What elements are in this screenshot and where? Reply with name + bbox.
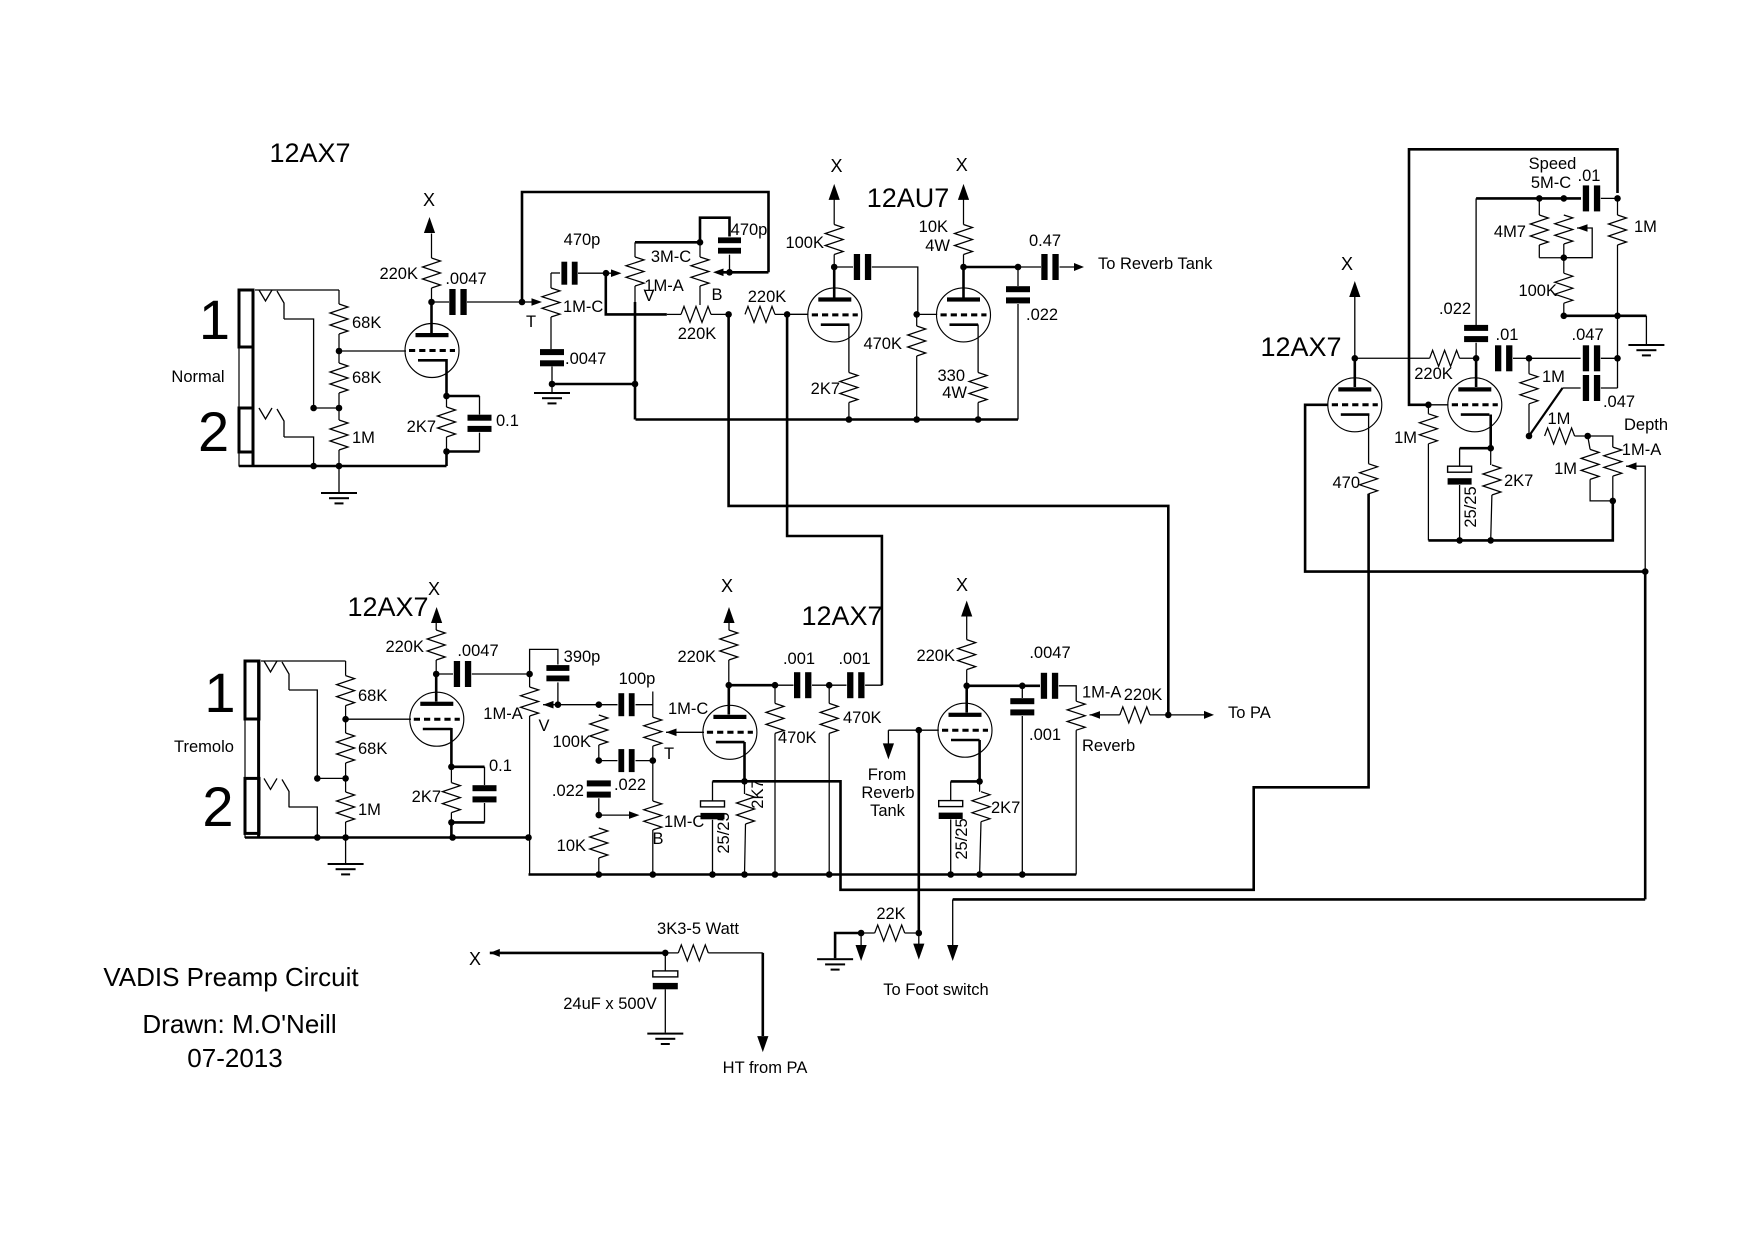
svg-text:0.1: 0.1: [496, 412, 519, 430]
potentiometer 1M-C Treble (T): [542, 273, 560, 349]
capacitor .047 (depth coupling): [1563, 375, 1618, 401]
capacitor .047 (phase 2): [1529, 345, 1618, 371]
node cathode V1a: [443, 393, 450, 400]
svg-text:1M-C: 1M-C: [668, 700, 708, 718]
node tone ground: [549, 381, 556, 388]
svg-text:1M: 1M: [1542, 368, 1565, 386]
ground (normal input): [321, 466, 357, 504]
wire J4 shunt to ground bus: [289, 807, 317, 838]
capacitor 24uF x 500V: [653, 953, 678, 1033]
wire tone ground strap: [552, 381, 638, 388]
node phase node 3: [1614, 355, 1621, 362]
wire grid V3a: [346, 718, 411, 720]
resistor 1M (depth series): [1545, 428, 1588, 444]
label 2K7: [811, 380, 840, 398]
capacitor 470p (bass bypass): [718, 237, 741, 272]
wire wiper row: [558, 704, 599, 706]
capacitor .022 (series): [599, 749, 653, 772]
svg-text:X: X: [956, 575, 968, 595]
label Reverb: [1082, 737, 1135, 755]
resistor 10K 4W (plate load U2b): [955, 225, 973, 268]
label 25/25: [953, 818, 971, 859]
potentiometer 1M-C Bass (tremolo B): [644, 761, 662, 875]
svg-text:To PA: To PA: [1228, 704, 1271, 722]
wire speed top row: [1476, 197, 1581, 200]
jack J1/J2 body (Normal inputs): [239, 290, 253, 466]
node grid V5b: [1425, 402, 1432, 409]
capacitor .0047 (coupling V3a): [436, 661, 529, 687]
resistor 220K (plate load V1a): [423, 234, 441, 303]
wire J1 tip to 68K: [255, 289, 339, 291]
svg-text:1M: 1M: [1634, 218, 1657, 236]
svg-text:T: T: [526, 313, 536, 331]
label .022: [1439, 300, 1471, 318]
label Depth: [1624, 416, 1668, 434]
tube label 12AX7 (V3b/V4): [801, 601, 882, 631]
label 1M-A: [644, 277, 683, 295]
wire plate V5a: [1354, 358, 1357, 387]
resistor 220K (osc plate): [1355, 350, 1476, 366]
label 1M: [1547, 410, 1570, 428]
svg-text:3K3-5 Watt: 3K3-5 Watt: [657, 920, 739, 938]
node 5M-C top: [1561, 195, 1568, 202]
svg-text:.022: .022: [614, 776, 646, 794]
title VADIS Preamp Circuit: [103, 962, 359, 992]
svg-text:.022: .022: [1439, 300, 1471, 318]
svg-text:25/25: 25/25: [953, 818, 971, 859]
wire cathode U2b: [977, 325, 979, 373]
label 10K 4W: [919, 218, 951, 255]
svg-text:07-2013: 07-2013: [187, 1043, 282, 1073]
capacitor .022 (tank shunt): [1006, 267, 1030, 420]
jack J2 tip contact: [259, 408, 284, 437]
svg-text:1M-A: 1M-A: [1622, 441, 1661, 459]
capacitor 0.1 (cathode bypass V1a): [468, 396, 492, 452]
svg-text:3M-C: 3M-C: [651, 248, 691, 266]
jack J4 tip contact: [264, 778, 289, 807]
label 220K: [678, 325, 717, 343]
svg-text:.001: .001: [838, 650, 870, 668]
svg-text:.047: .047: [1572, 326, 1604, 344]
svg-text:To Reverb Tank: To Reverb Tank: [1098, 255, 1213, 273]
svg-text:B: B: [711, 286, 722, 304]
label T: [526, 313, 536, 331]
resistor 2K7 (cathode V3a): [442, 767, 460, 823]
capacitor .001 (reverb shunt): [1010, 686, 1034, 878]
svg-text:X: X: [423, 190, 435, 210]
wire cathode reverb: [978, 740, 981, 781]
svg-text:.022: .022: [552, 782, 584, 800]
resistor 220K (plate load V3b): [720, 630, 738, 685]
svg-text:220K: 220K: [678, 325, 717, 343]
wire grid V5b: [1428, 404, 1448, 406]
capacitor .01 (speed cap): [1583, 185, 1618, 211]
supply arrow X (V3b): [721, 576, 735, 630]
label 1M: [1542, 368, 1565, 386]
jack J1 tip contact: [259, 290, 284, 319]
capacitor .0047 (coupling V1a): [432, 289, 523, 315]
label .001: [838, 650, 870, 668]
svg-text:2K7: 2K7: [749, 779, 767, 808]
node 12AU7 grid A: [784, 311, 791, 318]
resistor 1M (osc top right): [1609, 198, 1627, 315]
resistor 100K (osc): [1555, 258, 1573, 316]
capacitor 0.1 (cathode bypass V3a): [473, 767, 497, 823]
label B: [711, 286, 722, 304]
svg-text:220K: 220K: [385, 638, 424, 656]
resistor 220K (mixer 2): [745, 306, 808, 322]
wire cathode U2a: [848, 325, 850, 373]
potentiometer 1M-C Treble (tremolo T): [644, 692, 662, 761]
node grid V1a: [336, 348, 343, 355]
resistor 2K7 (cathode reverb): [972, 781, 990, 877]
svg-text:10K: 10K: [919, 218, 948, 236]
label .0047: [457, 642, 498, 660]
svg-text:220K: 220K: [379, 265, 418, 283]
wire J3 shunt to node: [289, 690, 317, 778]
label 24uF x 500V: [563, 995, 657, 1013]
label 1M: [1554, 460, 1577, 478]
svg-text:68K: 68K: [352, 314, 381, 332]
node output U2b: [1015, 264, 1022, 271]
label 220K: [677, 648, 716, 666]
wire plate U2b: [962, 267, 965, 298]
label 220K: [748, 288, 787, 306]
wire to 470p bass: [700, 218, 730, 243]
svg-text:100K: 100K: [785, 234, 824, 252]
resistor 4M7: [1530, 198, 1564, 257]
label To PA: [1228, 704, 1271, 722]
node cathode bottom V3a: [448, 819, 484, 837]
wire osc cathode bottom: [1428, 501, 1612, 541]
svg-text:12AU7: 12AU7: [867, 183, 950, 213]
svg-text:From: From: [868, 766, 907, 784]
svg-text:.001: .001: [783, 650, 815, 668]
wire 22K to ground: [835, 933, 861, 958]
node VB top: [697, 239, 704, 246]
label 1M-C: [668, 700, 708, 718]
node tremolo volume top: [526, 671, 533, 678]
wire osc grid box: [1409, 149, 1618, 404]
tube V3a triode (tremolo): [410, 692, 464, 746]
svg-text:470K: 470K: [863, 335, 902, 353]
node plate V3b: [726, 682, 733, 689]
node 390p bottom: [555, 701, 562, 708]
node between .001 caps: [826, 682, 833, 689]
label 0.1: [496, 412, 519, 430]
supply arrow X (V4b): [956, 575, 972, 640]
label Tremolo: [174, 738, 234, 756]
wire VB top tie: [635, 241, 700, 244]
node depth pot bottom: [1610, 498, 1617, 505]
svg-text:1M-A: 1M-A: [483, 705, 522, 723]
svg-text:To Foot switch: To Foot switch: [883, 981, 988, 999]
svg-text:.01: .01: [1578, 167, 1601, 185]
resistor 1M (osc divider v): [1520, 358, 1538, 436]
ground (power supply): [647, 1033, 683, 1045]
capacitor .022 (shunt): [587, 780, 611, 815]
tube V5b triode (osc buffer): [1448, 378, 1502, 432]
jack J3/J4 body (Tremolo inputs): [245, 661, 259, 838]
label 68K: [358, 740, 387, 758]
title 07-2013: [187, 1043, 282, 1073]
label 1M-A: [1082, 684, 1121, 702]
resistor 68K (tremolo grid stopper 2): [337, 719, 355, 778]
svg-text:T: T: [664, 745, 674, 763]
node V-pot input: [603, 270, 610, 277]
capacitor 25/25 (cathode bypass V3b): [701, 781, 745, 878]
capacitor 25/25 (cathode bypass reverb): [939, 781, 980, 877]
svg-text:220K: 220K: [1124, 686, 1163, 704]
wire diagonal to 1M node: [1529, 388, 1563, 436]
label 1 (tremolo input 1): [204, 661, 235, 724]
capacitor 470p (treble cap): [551, 262, 606, 285]
svg-text:5M-C: 5M-C: [1531, 174, 1571, 192]
svg-text:220K: 220K: [916, 647, 955, 665]
arrow footswitch 2: [913, 933, 924, 960]
node .001 top (reverb): [1019, 683, 1026, 690]
label .022: [614, 776, 646, 794]
arrow X supply feed: [469, 949, 500, 969]
svg-text:1M: 1M: [1554, 460, 1577, 478]
node 68K/1M junction: [310, 405, 342, 412]
wire 12AU7 cathode bus: [636, 416, 1019, 423]
label .01: [1578, 167, 1601, 185]
svg-text:68K: 68K: [352, 369, 381, 387]
ground (oscillator): [1628, 316, 1664, 357]
wire grid U2b: [917, 313, 938, 315]
wire cathode V1a: [445, 359, 448, 396]
svg-text:470K: 470K: [778, 729, 817, 747]
capacitor .022 (osc feedback): [1464, 198, 1488, 358]
svg-text:1M: 1M: [1547, 410, 1570, 428]
wire cathode to 0.1 cap (tremolo): [451, 765, 484, 768]
label .0047: [1029, 644, 1070, 662]
wire grid U2a: [787, 313, 808, 315]
node depth input: [1526, 433, 1533, 440]
title Drawn: M.O'Neill: [142, 1009, 336, 1039]
tube label 12AX7 (oscillator, V5): [1260, 332, 1341, 362]
wire plate V1a: [430, 302, 433, 333]
label 470K: [778, 729, 817, 747]
label 1M: [358, 801, 381, 819]
label 2K7: [407, 418, 436, 436]
svg-text:4W: 4W: [942, 384, 967, 402]
svg-text:470K: 470K: [843, 709, 882, 727]
node plate V1a: [428, 299, 435, 306]
tube label 12AX7 (normal channel, V1): [269, 138, 350, 168]
svg-text:V: V: [538, 717, 549, 735]
label 1M-C: [664, 813, 704, 831]
node cathode V5b: [1487, 445, 1494, 452]
resistor 220K (plate load V3a): [427, 623, 445, 674]
tube V3b triode: [703, 705, 757, 759]
wire tremolo cathode to footswitch line: [745, 494, 1369, 890]
wire depth to footswitch line: [953, 572, 1645, 900]
capacitor 100p: [599, 693, 653, 716]
label 10K: [557, 837, 586, 855]
svg-text:470: 470: [1332, 474, 1360, 492]
resistor 470K (shunt 2): [820, 685, 838, 878]
node tone input: [519, 299, 526, 306]
svg-text:390p: 390p: [564, 648, 601, 666]
supply arrow X (U2a): [829, 156, 843, 225]
node phase node 1: [1473, 355, 1480, 362]
wire reverb grid to 22K: [917, 730, 920, 933]
node To PA: [1165, 712, 1172, 719]
label 1M: [1394, 429, 1417, 447]
resistor 68K (grid stopper 1): [330, 290, 348, 351]
tube V5a triode (oscillator): [1328, 378, 1382, 432]
wire plate V3a: [435, 674, 438, 702]
node plate V5a: [1352, 355, 1359, 362]
label .0047: [445, 270, 486, 288]
svg-text:X: X: [428, 579, 440, 599]
svg-text:330: 330: [937, 367, 965, 385]
svg-text:4W: 4W: [925, 237, 950, 255]
label 390p: [564, 648, 601, 666]
svg-text:X: X: [1341, 254, 1353, 274]
label 2K7: [991, 799, 1020, 817]
svg-text:220K: 220K: [677, 648, 716, 666]
label 68K: [352, 369, 381, 387]
svg-text:2K7: 2K7: [811, 380, 840, 398]
svg-text:.01: .01: [1496, 326, 1519, 344]
svg-text:Tremolo: Tremolo: [174, 738, 234, 756]
label 2K7: [749, 779, 767, 808]
capacitor .001 (tremolo out 1): [794, 672, 847, 698]
node 470K-1 top: [772, 682, 779, 689]
svg-text:12AX7: 12AX7: [269, 138, 350, 168]
resistor 100K (tone): [590, 715, 608, 761]
capacitor .01 (phase 1): [1495, 345, 1529, 371]
label 330 4W: [937, 367, 967, 402]
label 2K7: [412, 788, 441, 806]
supply arrow X (V5): [1341, 254, 1360, 358]
svg-text:X: X: [830, 156, 842, 176]
wire B wiper: [713, 269, 769, 277]
label 68K: [358, 687, 387, 705]
node phase node 2: [1526, 355, 1533, 362]
wire cathode to 0.1 cap: [447, 395, 480, 398]
label 0.1: [489, 757, 512, 775]
jack J3 tip contact: [264, 661, 289, 690]
resistor 220K (plate load reverb): [958, 640, 976, 686]
label 470: [1332, 474, 1360, 492]
node osc ground row: [1561, 313, 1568, 320]
node 4M7 top: [1536, 195, 1543, 202]
wire plate U2b to output: [964, 266, 1019, 269]
wire plate reverb row: [967, 684, 1040, 687]
wire V wiper down: [606, 273, 667, 314]
capacitor .0047 (reverb out): [1041, 673, 1076, 701]
svg-text:470p: 470p: [731, 221, 768, 239]
label Speed: [1529, 155, 1577, 173]
node B wiper: [726, 269, 733, 276]
label 2 (input 2): [198, 400, 229, 463]
label 220K: [379, 265, 418, 283]
node cathode V3b: [741, 778, 748, 785]
svg-text:.0047: .0047: [565, 350, 606, 368]
svg-text:100K: 100K: [1518, 282, 1557, 300]
svg-text:.0047: .0047: [1029, 644, 1070, 662]
wire cathode V5b: [1489, 415, 1492, 449]
resistor 1M (depth shunt): [1581, 436, 1613, 501]
supply arrow X (V3a): [428, 579, 442, 623]
wire plate reverb: [965, 686, 968, 713]
svg-text:12AX7: 12AX7: [1260, 332, 1341, 362]
wire 12AU7 grid to tremolo out: [787, 314, 882, 685]
svg-text:.001: .001: [1029, 726, 1061, 744]
resistor 2K7 (cathode V1a): [438, 396, 456, 452]
svg-text:2: 2: [198, 400, 229, 463]
label 1M: [1634, 218, 1657, 236]
label 470p: [564, 231, 601, 249]
ground (tremolo input): [328, 838, 364, 876]
label 1M: [352, 429, 375, 447]
wire cathode V3b: [743, 742, 746, 781]
label 3M-C: [651, 248, 691, 266]
svg-text:25/25: 25/25: [1462, 486, 1480, 527]
node dropper input: [662, 950, 669, 957]
node 22K right: [916, 930, 923, 937]
potentiometer 1M-A Reverb: [1067, 701, 1085, 874]
node 100K top: [596, 701, 603, 708]
svg-text:22K: 22K: [876, 905, 905, 923]
label B: [652, 830, 663, 848]
node cathode bottom V1a: [443, 448, 479, 466]
wire X rail: [490, 952, 666, 955]
resistor 1M (input grid leak): [330, 408, 348, 466]
label 5M-C: [1531, 174, 1571, 192]
resistor 470 (osc cathode): [1360, 464, 1378, 500]
svg-text:.0047: .0047: [457, 642, 498, 660]
svg-text:Drawn: M.O'Neill: Drawn: M.O'Neill: [142, 1009, 336, 1039]
potentiometer 1M-A Volume (V, left leg): [626, 242, 644, 302]
node reverb grid: [916, 727, 923, 734]
svg-text:Normal: Normal: [171, 368, 224, 386]
label 1 (input 1): [199, 288, 230, 351]
wiper arrow V pot: [606, 269, 622, 277]
svg-text:0.47: 0.47: [1029, 232, 1061, 250]
svg-text:68K: 68K: [358, 687, 387, 705]
label .01: [1496, 326, 1519, 344]
label 1M-C: [563, 298, 603, 316]
capacitor 25/25 (osc cathode bypass): [1448, 448, 1491, 544]
label 25/25: [715, 812, 733, 853]
node 68K/1M junction (tremolo): [314, 775, 349, 782]
svg-text:470p: 470p: [564, 231, 601, 249]
resistor 68K (grid stopper 2): [330, 351, 348, 408]
label 22K: [876, 905, 905, 923]
tube V1a triode (normal): [405, 324, 459, 378]
svg-text:12AX7: 12AX7: [801, 601, 882, 631]
resistor 330 4W (cathode U2b): [969, 373, 987, 420]
potentiometer 1M-A Depth: [1588, 436, 1622, 501]
wire 1M down to .047 node: [1617, 316, 1619, 388]
capacitor 0.47 (to reverb tank): [1018, 254, 1076, 280]
wiper arrow speed: [1564, 224, 1592, 258]
label .001: [783, 650, 815, 668]
svg-text:V: V: [643, 287, 654, 305]
potentiometer 1M-A Volume (tremolo V): [521, 674, 539, 875]
svg-text:.047: .047: [1603, 393, 1635, 411]
tube U2a triode (12AU7 driver): [808, 288, 862, 342]
label From Reverb Tank: [861, 766, 914, 820]
wire plate V5b: [1475, 358, 1478, 387]
node 1M top right: [1614, 195, 1621, 202]
wire J3 tip to 68K: [261, 660, 346, 662]
